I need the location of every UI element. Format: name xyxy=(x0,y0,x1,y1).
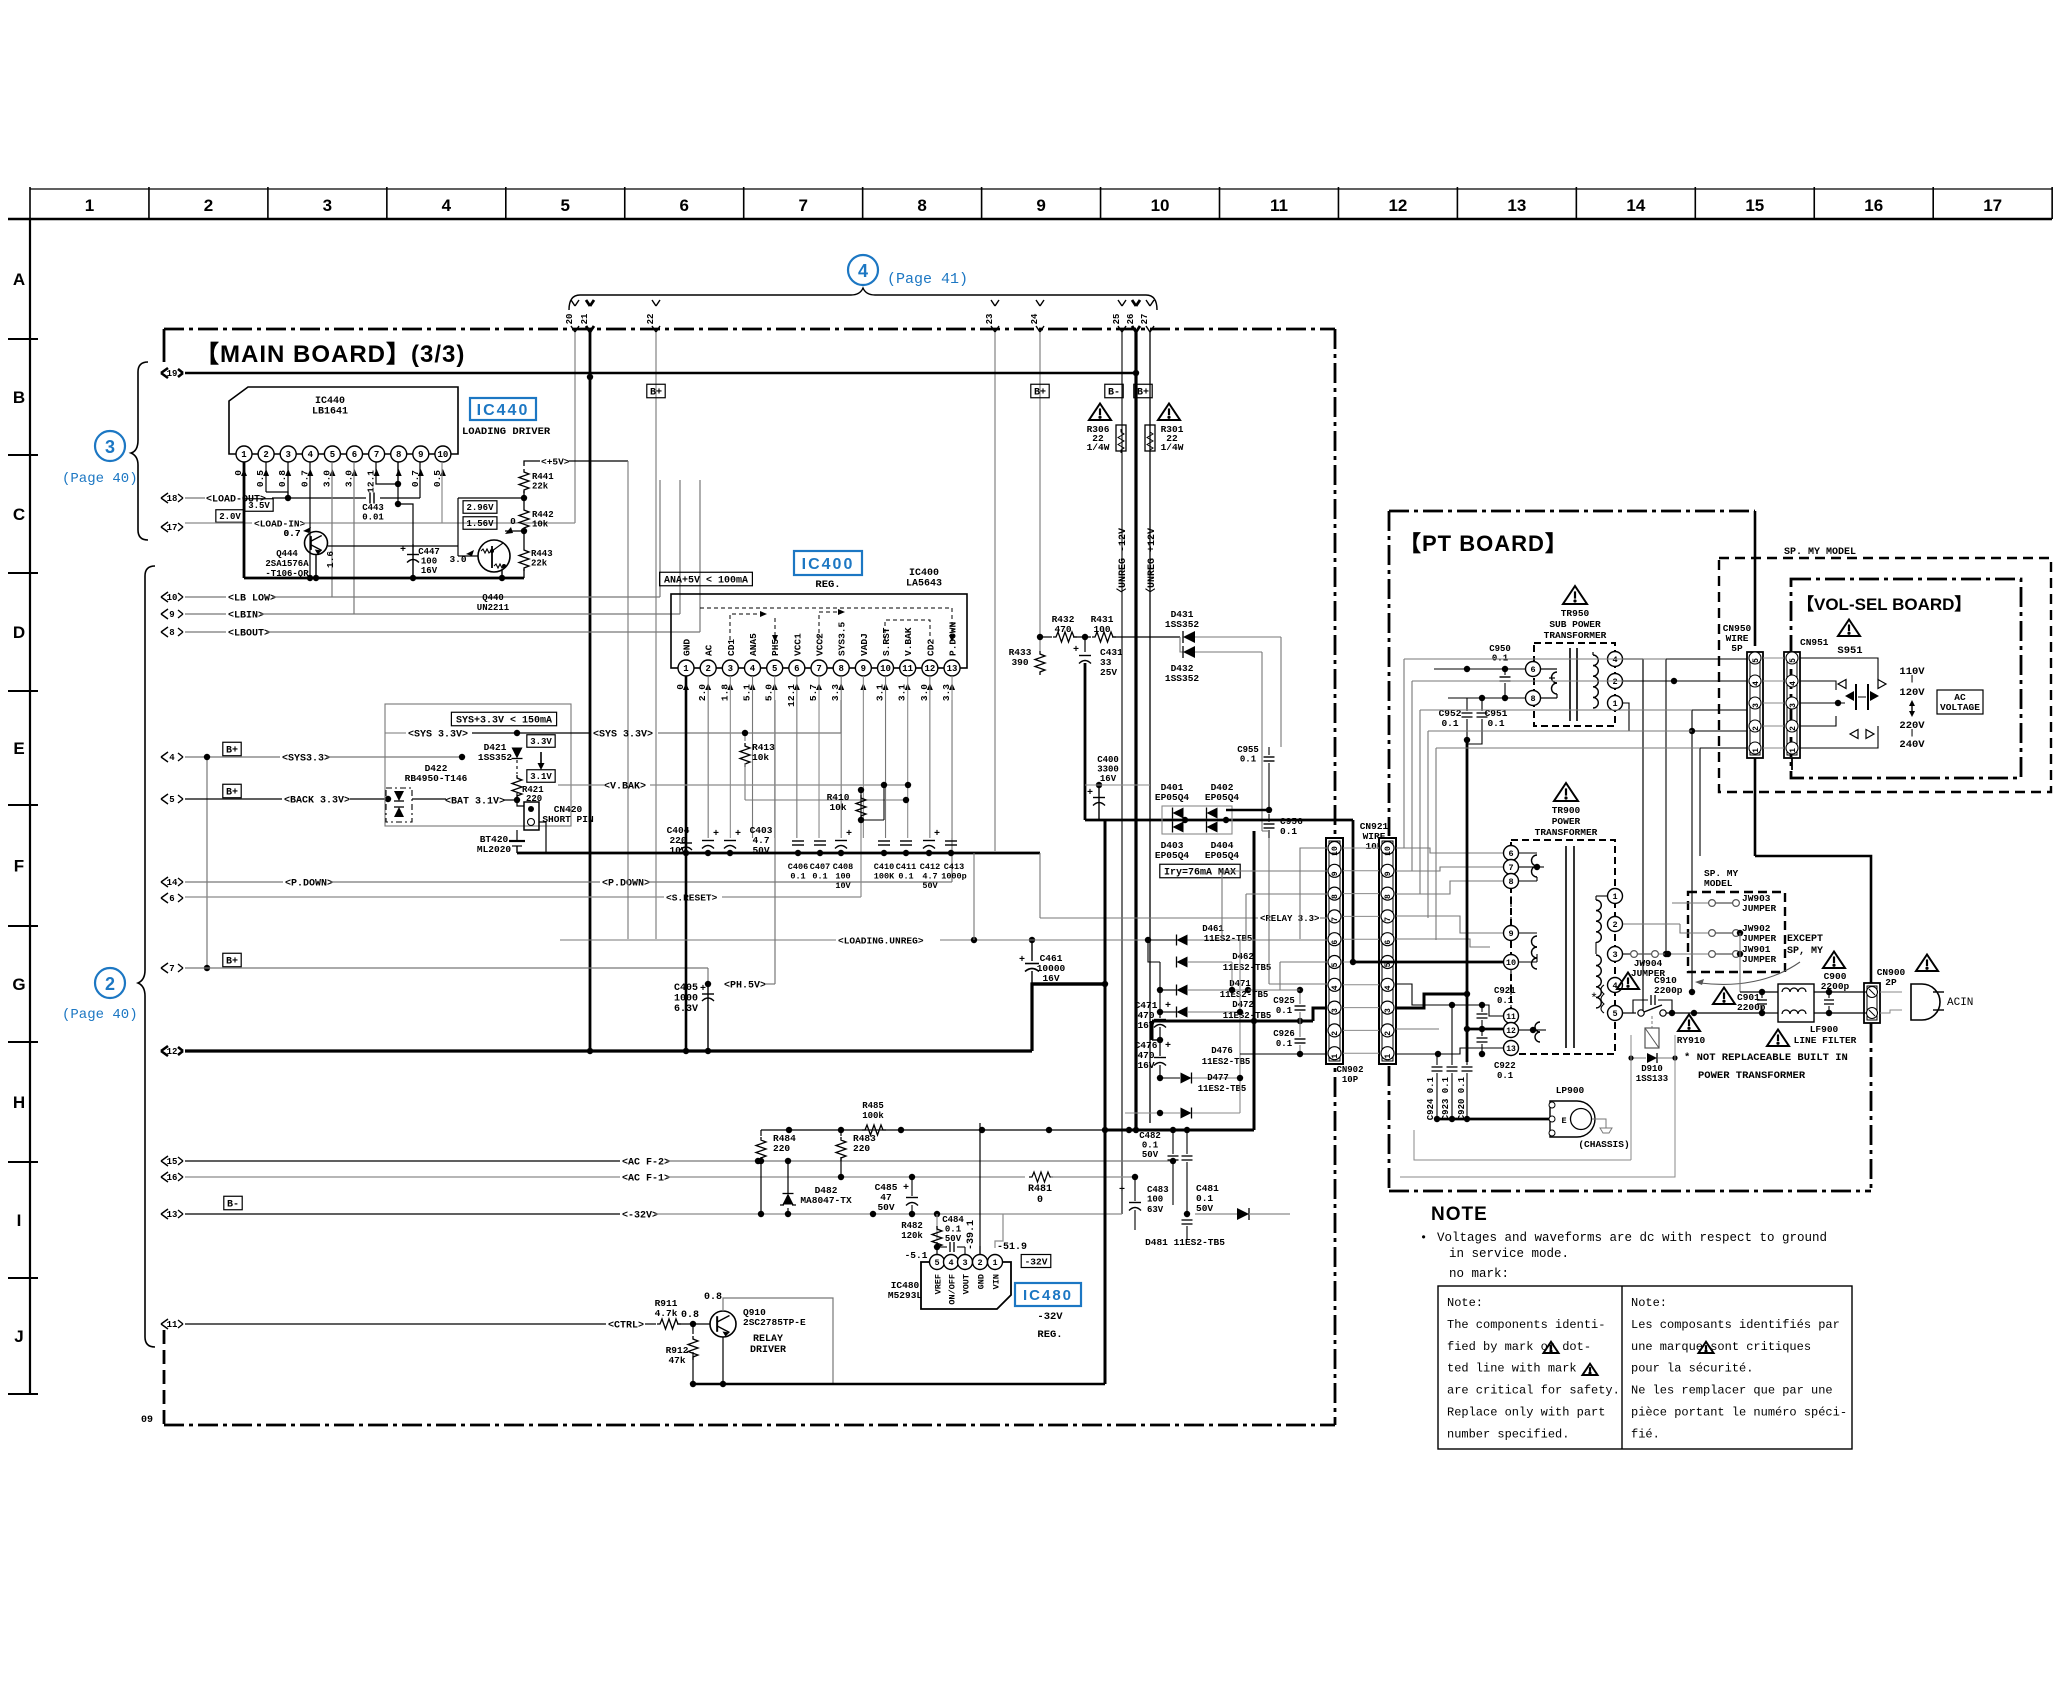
wire GND pin vertical xyxy=(979,1123,981,1254)
wire to pin8 xyxy=(1246,893,1328,895)
svg-text:1.6: 1.6 xyxy=(325,551,336,568)
svg-text:3: 3 xyxy=(285,450,290,460)
TR900 primary pin6 xyxy=(1504,846,1519,861)
pin6 wire down xyxy=(353,462,355,614)
brace over top connectors xyxy=(569,288,1157,310)
resistor R443 22k xyxy=(519,547,529,571)
capacitor C956 0.1 xyxy=(1264,824,1275,828)
svg-text:R443: R443 xyxy=(531,549,553,559)
svg-text:C482: C482 xyxy=(1139,1131,1161,1141)
thick bottom bus xyxy=(693,1383,1105,1386)
svg-text:VOUT: VOUT xyxy=(962,1274,972,1294)
diode pair D422 RB4950-T146 xyxy=(386,788,412,822)
chassis ground xyxy=(1592,1119,1606,1128)
connector CN921 right strip xyxy=(1379,838,1396,1064)
arrow 3.3V to 3.1V xyxy=(540,752,542,766)
svg-text:10: 10 xyxy=(167,593,178,603)
svg-text:E: E xyxy=(13,739,24,758)
svg-text:16V: 16V xyxy=(421,566,438,576)
svg-text:D461: D461 xyxy=(1202,924,1224,934)
SYS block outline xyxy=(385,704,571,826)
svg-text:3300: 3300 xyxy=(1097,765,1119,775)
svg-text:5: 5 xyxy=(1752,658,1761,663)
thick ground bus IC440 xyxy=(244,577,524,580)
dashed x=1511 primary xyxy=(1510,889,1512,925)
diode D431 1SS352 xyxy=(1183,631,1195,643)
svg-text:4: 4 xyxy=(1752,681,1761,686)
svg-text:50V: 50V xyxy=(922,881,938,891)
svg-text:<AC F-2>: <AC F-2> xyxy=(622,1158,670,1169)
wire D432 line xyxy=(1180,637,1183,652)
svg-text:<P.DOWN>: <P.DOWN> xyxy=(602,879,650,890)
svg-text:I: I xyxy=(17,1211,22,1230)
svg-text:-5.1: -5.1 xyxy=(905,1250,928,1261)
svg-text:100: 100 xyxy=(1147,1195,1163,1205)
svg-text:4: 4 xyxy=(1384,985,1393,990)
wire S.RESET to R410 xyxy=(722,896,861,898)
svg-text:Ne les remplacer que par une: Ne les remplacer que par une xyxy=(1631,1384,1833,1398)
IC480 pins xyxy=(930,1255,945,1270)
svg-text:5.1: 5.1 xyxy=(742,684,753,701)
resistor R485 100k xyxy=(862,1125,886,1135)
svg-text:10: 10 xyxy=(437,450,448,460)
svg-text:R441: R441 xyxy=(532,472,554,482)
B- box label on 25 xyxy=(1105,384,1123,398)
CN921 interconnect wires xyxy=(1343,847,1379,849)
wire 4 rail xyxy=(185,756,280,758)
VOL-SEL outer dashed box xyxy=(1719,558,2051,792)
svg-text:5: 5 xyxy=(561,196,570,215)
wire pin2 right xyxy=(1396,1028,1439,1030)
svg-text:C950: C950 xyxy=(1489,644,1511,654)
svg-text:4: 4 xyxy=(169,753,175,763)
diode D461 11ES2-TB5 xyxy=(1148,939,1176,941)
resistor R431 100 xyxy=(1092,632,1116,642)
TR900 primary pin12 xyxy=(1504,1023,1519,1038)
svg-text:8: 8 xyxy=(396,450,401,460)
pin8 wire down xyxy=(397,462,399,484)
svg-text:RELAY: RELAY xyxy=(753,1334,783,1345)
wire Q910 collector xyxy=(723,1298,833,1384)
svg-text:1.8: 1.8 xyxy=(719,684,730,701)
svg-text:<-32V>: <-32V> xyxy=(622,1211,658,1222)
svg-text:9: 9 xyxy=(1036,196,1045,215)
svg-text:<LBIN>: <LBIN> xyxy=(228,611,264,622)
bridge diodes D403 D404 EPO5Q4 xyxy=(1173,822,1184,833)
wire SYS3.3 net xyxy=(385,732,406,734)
wire cluster left vertical xyxy=(1159,962,1161,1012)
svg-text:D481 11ES2-TB5: D481 11ES2-TB5 xyxy=(1145,1237,1225,1248)
left border vertical xyxy=(29,219,31,1394)
svg-text:1: 1 xyxy=(1752,748,1761,753)
svg-text:15: 15 xyxy=(167,1157,178,1167)
svg-text:+: + xyxy=(1165,1041,1171,1052)
svg-text:LA5643: LA5643 xyxy=(906,579,942,590)
svg-text:6: 6 xyxy=(169,894,174,904)
svg-text:1: 1 xyxy=(1331,1054,1340,1059)
svg-text:2200p: 2200p xyxy=(1821,981,1850,992)
wire CN950 pin1 stub xyxy=(1700,747,1747,749)
wire +5V corner xyxy=(524,461,540,466)
svg-text:47k: 47k xyxy=(668,1355,685,1366)
svg-text:5: 5 xyxy=(934,1258,939,1268)
wire 6 rail xyxy=(185,896,664,898)
wire C483 to -32V xyxy=(1134,1177,1136,1201)
svg-text:D462: D462 xyxy=(1232,952,1254,962)
connector CN921 left strip xyxy=(1326,838,1343,1064)
TR900 primary pin8 xyxy=(1504,874,1519,889)
TR950 core xyxy=(1569,648,1571,721)
TR900 primary coil b xyxy=(1532,936,1537,969)
thick analog ground bus xyxy=(686,852,1040,855)
svg-text:10: 10 xyxy=(880,664,891,674)
svg-text:C483: C483 xyxy=(1147,1185,1169,1195)
left connector <13> xyxy=(161,1209,183,1219)
box label SYS+3.3V < 150mA xyxy=(451,712,556,726)
wire 14 rail xyxy=(185,881,283,883)
svg-text:S.RST: S.RST xyxy=(881,627,892,656)
svg-text:2: 2 xyxy=(705,664,710,674)
svg-text:22: 22 xyxy=(646,314,656,325)
svg-text:-32V: -32V xyxy=(1025,1256,1048,1267)
TR900 core xyxy=(1565,846,1567,1048)
svg-text:5: 5 xyxy=(169,795,174,805)
svg-text:0.1: 0.1 xyxy=(945,1225,962,1235)
svg-text:B+: B+ xyxy=(1137,388,1149,399)
box label 3.1V xyxy=(527,770,555,783)
svg-text:2SC2785TP-E: 2SC2785TP-E xyxy=(743,1317,806,1328)
junction 21/12 xyxy=(587,1048,593,1054)
wire LF900 to CN900 xyxy=(1814,991,1866,993)
svg-text:+: + xyxy=(400,545,406,556)
diode D432 1SS352 xyxy=(1183,646,1195,658)
wire Q444 emitter down xyxy=(315,555,317,578)
wire from 26 down (B+ trunk) xyxy=(1134,332,1137,1133)
svg-text:C412: C412 xyxy=(920,862,940,872)
thick C461 bus xyxy=(1032,982,1105,985)
resistor R483 220 xyxy=(840,1130,842,1136)
wire pin7 right xyxy=(1396,916,1503,933)
svg-text:220: 220 xyxy=(773,1143,790,1154)
svg-text:LOADING DRIVER: LOADING DRIVER xyxy=(462,426,551,438)
svg-text:3.3V: 3.3V xyxy=(530,737,552,747)
svg-text:6: 6 xyxy=(1530,665,1535,675)
svg-text:CN951: CN951 xyxy=(1800,637,1829,648)
svg-text:50V: 50V xyxy=(1142,1150,1159,1160)
svg-text:4: 4 xyxy=(1331,985,1340,990)
svg-text:50V: 50V xyxy=(877,1202,894,1213)
capacitor C431 33 25V xyxy=(1084,637,1086,652)
svg-text:13: 13 xyxy=(1506,1045,1516,1054)
svg-text:0.5: 0.5 xyxy=(255,470,266,487)
svg-text:13: 13 xyxy=(1507,196,1526,215)
wire R421 to CN420 xyxy=(517,800,524,806)
zener D482 MA8047-TX xyxy=(787,1208,789,1214)
svg-text:1/4W: 1/4W xyxy=(1087,442,1110,453)
svg-text:100K: 100K xyxy=(874,872,895,882)
svg-text:【PT BOARD】: 【PT BOARD】 xyxy=(1399,531,1568,556)
wire CN951 pin4 right xyxy=(1800,681,1836,690)
svg-text:2: 2 xyxy=(204,196,213,215)
svg-text:3: 3 xyxy=(728,664,733,674)
svg-text:number specified.: number specified. xyxy=(1447,1427,1569,1441)
svg-text:100k: 100k xyxy=(862,1111,884,1121)
wire jumpers right vertical xyxy=(1739,933,1741,992)
capacitor C405 1000 6.3V xyxy=(707,984,709,1051)
TR900 sec coil wire xyxy=(1595,896,1597,900)
svg-text:10: 10 xyxy=(1331,846,1340,856)
svg-text:10: 10 xyxy=(1151,196,1170,215)
svg-text:9: 9 xyxy=(1331,871,1340,876)
svg-text:|: | xyxy=(1910,729,1915,738)
wire +5V drop x628 xyxy=(627,461,629,939)
svg-text:(CHASSIS): (CHASSIS) xyxy=(1578,1139,1629,1150)
thick wire into TR pin12 xyxy=(1467,1028,1503,1031)
svg-text:6: 6 xyxy=(1508,849,1513,859)
wire pin3 right thick xyxy=(1396,994,1467,1008)
svg-text:IC400: IC400 xyxy=(802,556,855,573)
svg-text:REG.: REG. xyxy=(815,579,840,591)
main board bottom dash-dot border xyxy=(164,1424,1335,1427)
svg-text:+: + xyxy=(1087,788,1093,799)
svg-text:<P.DOWN>: <P.DOWN> xyxy=(285,879,333,890)
box label Iry=76mA MAX xyxy=(1160,864,1240,878)
svg-text:3: 3 xyxy=(1752,703,1761,708)
svg-text:VCC1: VCC1 xyxy=(792,633,803,656)
svg-text:|: | xyxy=(1910,675,1915,684)
brace group 2 xyxy=(138,566,155,1347)
box label 3.3V xyxy=(527,735,555,748)
net label V.BAK wire xyxy=(558,784,604,786)
relay contact RY910 xyxy=(1623,1012,1636,1014)
svg-text:14: 14 xyxy=(1626,196,1645,215)
svg-text:5: 5 xyxy=(1612,1009,1617,1019)
svg-text:4: 4 xyxy=(1612,655,1617,665)
diode D471 11ES2-TB5 xyxy=(1160,989,1176,991)
capacitor C910 xyxy=(1651,995,1655,1005)
wire TR950 pin1 right xyxy=(1623,703,1692,731)
svg-text:CD2: CD2 xyxy=(925,639,936,656)
B+ box label on 24 xyxy=(1031,384,1049,398)
box label 3.5V xyxy=(245,499,273,512)
svg-text:18: 18 xyxy=(167,494,178,504)
svg-text:POWER TRANSFORMER: POWER TRANSFORMER xyxy=(1698,1070,1806,1082)
left connector <4> xyxy=(161,752,183,762)
svg-text:1SS352: 1SS352 xyxy=(1165,673,1200,684)
svg-text:4: 4 xyxy=(1789,681,1798,686)
wire R410 top xyxy=(860,790,862,793)
wire P.DOWN to pin13 xyxy=(648,881,952,883)
pin5 wire down xyxy=(331,462,333,597)
svg-text:B: B xyxy=(13,388,25,407)
svg-text:22k: 22k xyxy=(531,559,548,569)
svg-text:11ES2-TB5: 11ES2-TB5 xyxy=(1198,1084,1247,1094)
svg-text:5: 5 xyxy=(1331,962,1340,967)
svg-text:C925: C925 xyxy=(1273,996,1295,1006)
wire pin1 VIN up xyxy=(995,1214,1003,1248)
wire R481 right xyxy=(1051,1176,1135,1178)
svg-text:C410: C410 xyxy=(874,862,894,872)
svg-text:VCC2: VCC2 xyxy=(815,633,826,656)
svg-text:<LBOUT>: <LBOUT> xyxy=(228,629,270,640)
connector CN900 xyxy=(1864,983,1880,1023)
svg-text:R481: R481 xyxy=(1028,1184,1052,1195)
wire to LF900 top xyxy=(1740,991,1778,993)
svg-text:5: 5 xyxy=(330,450,335,460)
wire 12 up to C461 xyxy=(1032,984,1107,1051)
wire top rail y=1130 xyxy=(761,1129,1105,1131)
IC400 blue ref box xyxy=(794,551,862,575)
wire 12 rail thick xyxy=(185,1049,1032,1052)
svg-text:C406: C406 xyxy=(788,862,808,872)
svg-text:<CTRL>: <CTRL> xyxy=(608,1321,644,1332)
TR900 primary pin10 xyxy=(1504,955,1519,970)
svg-text:2: 2 xyxy=(977,1258,982,1268)
TR900 sec pin1 xyxy=(1608,889,1623,904)
TR950 sec pin2 xyxy=(1608,674,1623,689)
wire bridge to C955 xyxy=(1226,809,1269,811)
svg-text:D: D xyxy=(13,623,25,642)
wire pin8 right xyxy=(1396,881,1503,894)
B+ box at 7 xyxy=(223,953,241,967)
svg-text:3: 3 xyxy=(105,437,115,457)
CN921 left pins xyxy=(1328,842,1341,855)
IC400 internal dashed 2 xyxy=(774,618,776,640)
svg-text:470: 470 xyxy=(1054,624,1071,635)
wire to pin10b xyxy=(1300,848,1328,939)
svg-text:120V: 120V xyxy=(1899,687,1925,699)
svg-text:3.3: 3.3 xyxy=(830,684,841,701)
svg-text:17: 17 xyxy=(167,523,178,533)
svg-text:1000p: 1000p xyxy=(941,872,967,882)
svg-text:25: 25 xyxy=(1112,314,1122,325)
wire R410 junction xyxy=(861,819,884,821)
svg-text:C407: C407 xyxy=(810,862,830,872)
box label 1.56V xyxy=(463,517,497,530)
svg-text:〈UNREG -12V: 〈UNREG -12V xyxy=(1115,528,1129,598)
CN950 pins xyxy=(1749,652,1761,664)
wire -32V cont xyxy=(654,1213,1122,1215)
svg-text:1: 1 xyxy=(85,196,94,215)
svg-text:LP900: LP900 xyxy=(1556,1085,1585,1096)
thick bus y=1130 xyxy=(1105,1129,1254,1132)
wire R442-R443 xyxy=(523,529,525,547)
svg-text:0.1: 0.1 xyxy=(1441,718,1458,729)
svg-text:pour la sécurité.: pour la sécurité. xyxy=(1631,1362,1753,1376)
resistor R432 470 xyxy=(1053,632,1077,642)
capacitor C411 xyxy=(900,841,912,845)
svg-text:RB4950-T146: RB4950-T146 xyxy=(405,773,468,784)
svg-text:S951: S951 xyxy=(1837,645,1862,657)
brace group 3 xyxy=(131,362,148,540)
TR950 sec pin4 xyxy=(1608,652,1623,667)
top connector <25> xyxy=(1118,300,1126,332)
svg-text:2: 2 xyxy=(1752,726,1761,731)
TR900 secondary coil xyxy=(1596,900,1601,942)
svg-text:SP, MY: SP, MY xyxy=(1787,946,1823,957)
resistor R413 10k xyxy=(744,733,746,741)
svg-text:5.7: 5.7 xyxy=(808,684,819,701)
svg-text:16V: 16V xyxy=(1100,774,1117,784)
svg-text:<SYS 3.3V>: <SYS 3.3V> xyxy=(408,730,468,741)
TR900 sec pin5 xyxy=(1608,1006,1623,1021)
svg-text:*: * xyxy=(1590,991,1598,1006)
wire 7 rail xyxy=(185,967,708,969)
svg-text:22k: 22k xyxy=(532,482,549,492)
jumper JW902 xyxy=(1712,932,1736,934)
thick ground bus from battery xyxy=(516,846,518,853)
svg-text:•: • xyxy=(1420,1231,1427,1245)
svg-text:2.0: 2.0 xyxy=(697,684,708,701)
TR900 primary coil c xyxy=(1535,1022,1540,1042)
wire R441-R442 xyxy=(523,491,525,507)
top connector <24> xyxy=(1036,300,1044,332)
svg-text:12: 12 xyxy=(924,664,935,674)
resistor R306 22 1/4W xyxy=(1116,425,1126,451)
resistor R421 220 xyxy=(512,775,522,799)
wire AC F-1 cont xyxy=(666,1176,1025,1178)
svg-text:100: 100 xyxy=(1093,624,1110,635)
NOTE table divider xyxy=(1621,1286,1623,1449)
svg-text:120k: 120k xyxy=(901,1231,923,1241)
svg-text:<LOADING.UNREG>: <LOADING.UNREG> xyxy=(838,935,924,946)
svg-text:B+: B+ xyxy=(226,957,238,968)
wire to pin6 xyxy=(1304,939,1328,941)
battery BT420 ML2020 xyxy=(516,830,518,841)
svg-text:50V: 50V xyxy=(945,1234,962,1244)
svg-text:SYS+3.3V < 150mA: SYS+3.3V < 150mA xyxy=(456,716,552,727)
wire 9 rail xyxy=(185,613,226,615)
wire D431 right xyxy=(1195,636,1281,638)
wire CN950 pin2 stub xyxy=(1692,730,1747,732)
svg-text:8: 8 xyxy=(1384,894,1393,899)
svg-text:6: 6 xyxy=(1331,940,1340,945)
line filter LF900 xyxy=(1778,984,1814,1022)
svg-text:-51.9: -51.9 xyxy=(997,1242,1027,1253)
svg-text:(Page 40): (Page 40) xyxy=(62,1007,138,1023)
svg-text:11ES2-TB5: 11ES2-TB5 xyxy=(1223,963,1272,973)
svg-text:8: 8 xyxy=(917,196,926,215)
wire from 21 down (B+ trunk) xyxy=(589,332,592,1051)
border frame top ruler line xyxy=(30,188,2052,190)
resistor R410 10k xyxy=(860,793,862,820)
svg-text:10P: 10P xyxy=(1342,1075,1359,1085)
svg-text:TRANSFORMER: TRANSFORMER xyxy=(1544,630,1607,641)
wire to LF900 bottom xyxy=(1762,1012,1778,1014)
wire to R432 xyxy=(1040,636,1052,638)
svg-text:0.7: 0.7 xyxy=(283,528,300,539)
svg-text:9: 9 xyxy=(1384,871,1393,876)
svg-text:26: 26 xyxy=(1126,314,1136,325)
svg-text:POWER: POWER xyxy=(1552,816,1581,827)
svg-text:0.1: 0.1 xyxy=(1276,1006,1293,1016)
svg-text:100: 100 xyxy=(421,557,437,567)
svg-text:15: 15 xyxy=(1745,196,1764,215)
IC440 blue ref box xyxy=(470,398,536,420)
svg-text:REG.: REG. xyxy=(1037,1329,1062,1341)
TR950 primary pin6 xyxy=(1526,662,1541,677)
vertical bundle x=1666 xyxy=(1665,659,1667,954)
page ref circle 3 xyxy=(95,431,125,461)
svg-text:4: 4 xyxy=(750,664,756,674)
svg-text:JUMPER: JUMPER xyxy=(1742,933,1777,944)
svg-text:C400: C400 xyxy=(1097,755,1119,765)
svg-text:Note:: Note: xyxy=(1447,1296,1483,1310)
svg-text:pièce portant le numéro spéci-: pièce portant le numéro spéci- xyxy=(1631,1406,1847,1420)
svg-text:V.BAK: V.BAK xyxy=(903,627,914,656)
svg-text:0.1: 0.1 xyxy=(790,872,805,882)
svg-text:SUB POWER: SUB POWER xyxy=(1549,619,1601,630)
